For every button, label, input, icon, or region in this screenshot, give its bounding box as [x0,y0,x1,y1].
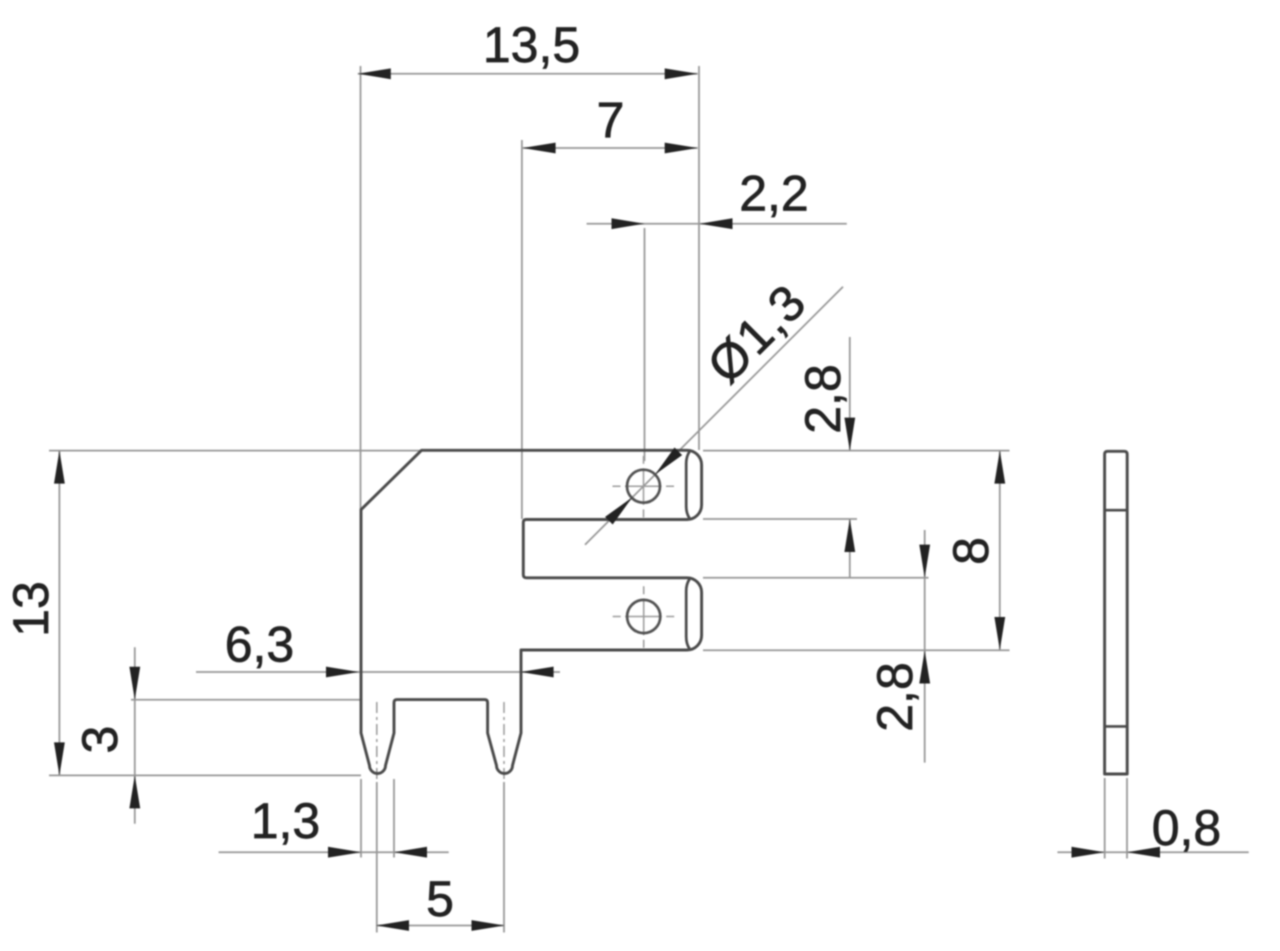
svg-text:3: 3 [72,726,128,754]
svg-text:13: 13 [3,581,59,637]
svg-text:2,8: 2,8 [795,364,851,434]
svg-text:1,3: 1,3 [251,793,321,849]
svg-text:6,3: 6,3 [225,617,295,673]
svg-text:13,5: 13,5 [483,17,580,73]
svg-text:8: 8 [943,537,999,565]
svg-text:7: 7 [597,93,625,149]
svg-text:5: 5 [426,871,454,927]
svg-text:2,2: 2,2 [739,166,809,222]
svg-text:0,8: 0,8 [1152,800,1222,856]
svg-text:2,8: 2,8 [867,662,923,732]
